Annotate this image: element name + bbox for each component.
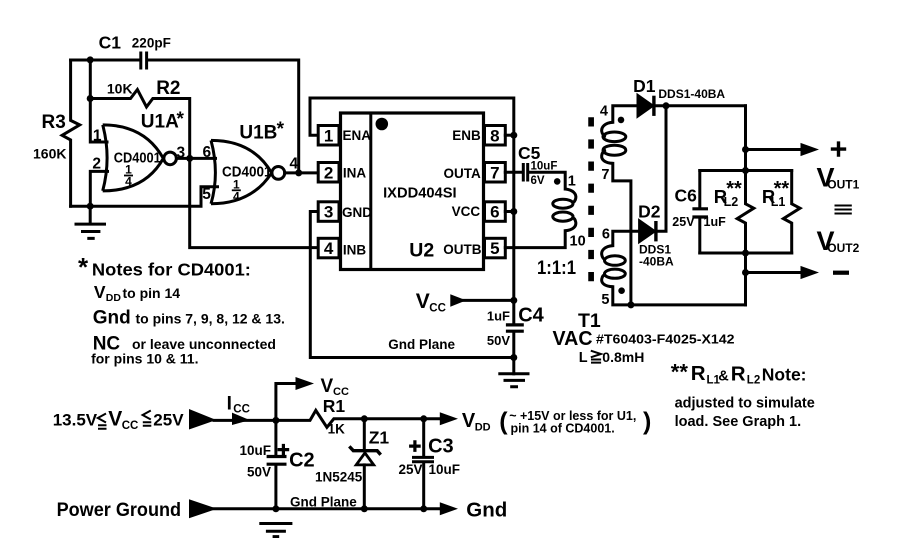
svg-text:adjusted to simulate: adjusted to simulate	[675, 396, 815, 412]
svg-text:U1A: U1A	[141, 112, 179, 133]
svg-text:Gnd Plane: Gnd Plane	[290, 494, 357, 509]
svg-text:1K: 1K	[328, 422, 346, 437]
svg-text:CC: CC	[233, 404, 250, 416]
svg-text:ENB: ENB	[452, 128, 481, 143]
svg-text:ENA: ENA	[343, 128, 372, 143]
svg-text:DDS1-40BA: DDS1-40BA	[658, 87, 725, 101]
svg-text:#T60403-F4025-X142: #T60403-F4025-X142	[596, 332, 735, 347]
svg-text:4: 4	[290, 156, 299, 173]
svg-text:INB: INB	[343, 243, 367, 258]
svg-text:IXDD404SI: IXDD404SI	[383, 185, 457, 201]
svg-text:5: 5	[490, 239, 499, 258]
svg-text:3: 3	[324, 203, 333, 222]
svg-text:8: 8	[490, 126, 499, 145]
svg-text:C3: C3	[428, 436, 454, 458]
svg-text:OUT1: OUT1	[827, 178, 859, 192]
svg-text:Z1: Z1	[369, 428, 390, 448]
svg-text:6: 6	[602, 227, 610, 243]
svg-text:-40BA: -40BA	[639, 255, 674, 269]
svg-text:L2: L2	[747, 375, 760, 387]
svg-text:**: **	[774, 178, 790, 200]
svg-text:10K: 10K	[107, 81, 133, 97]
svg-text:**: **	[726, 178, 742, 200]
svg-text:load. See Graph 1.: load. See Graph 1.	[675, 414, 802, 430]
svg-text:CD4001: CD4001	[114, 151, 161, 167]
svg-text:1: 1	[324, 126, 333, 145]
svg-text:to pins 7, 9, 8, 12 & 13.: to pins 7, 9, 8, 12 & 13.	[136, 311, 285, 327]
svg-text:): )	[643, 407, 651, 435]
svg-text:Note:: Note:	[762, 364, 807, 384]
svg-text:2: 2	[324, 163, 333, 182]
svg-text:*: *	[78, 252, 89, 282]
svg-text:Gnd Plane: Gnd Plane	[388, 337, 455, 352]
svg-text:CC: CC	[429, 303, 446, 315]
svg-text:1uF: 1uF	[704, 215, 727, 229]
svg-text:10uF: 10uF	[531, 161, 558, 173]
svg-text:50V: 50V	[487, 333, 510, 348]
svg-text:1uF: 1uF	[487, 308, 510, 323]
svg-text:I: I	[227, 394, 232, 415]
svg-text:OUTB: OUTB	[443, 242, 481, 257]
svg-text:6V: 6V	[531, 175, 545, 187]
svg-text:D2: D2	[638, 202, 661, 222]
svg-text:C4: C4	[518, 305, 544, 327]
svg-text:**: **	[671, 360, 689, 385]
svg-text:Gnd: Gnd	[466, 499, 507, 522]
svg-text:INA: INA	[343, 165, 367, 180]
svg-text:R: R	[691, 362, 706, 385]
svg-text:0.8mH: 0.8mH	[602, 349, 644, 365]
svg-text:OUT2: OUT2	[827, 241, 859, 255]
svg-text:DD: DD	[106, 292, 122, 304]
svg-text:V: V	[108, 408, 122, 431]
svg-text:R: R	[731, 362, 746, 385]
svg-text:25V: 25V	[672, 215, 695, 229]
svg-text:to pin 14: to pin 14	[123, 285, 181, 301]
svg-text:13.5V: 13.5V	[53, 411, 98, 430]
svg-text:Gnd: Gnd	[93, 308, 131, 329]
svg-text:4: 4	[125, 175, 132, 189]
svg-text:*: *	[177, 109, 185, 130]
svg-text:OUTA: OUTA	[444, 166, 481, 181]
svg-text:10uF: 10uF	[239, 443, 271, 458]
svg-text:R1: R1	[323, 396, 346, 416]
svg-text:1:1:1: 1:1:1	[537, 258, 576, 279]
svg-text:7: 7	[490, 163, 499, 182]
svg-text:220pF: 220pF	[132, 36, 171, 51]
svg-text:pin 14 of CD4001.: pin 14 of CD4001.	[511, 421, 615, 435]
svg-text:R2: R2	[156, 78, 180, 99]
svg-text:4: 4	[600, 104, 608, 120]
svg-text:3: 3	[177, 145, 186, 162]
svg-text:5: 5	[202, 186, 211, 203]
svg-text:1N5245: 1N5245	[315, 470, 363, 485]
svg-text:V: V	[94, 282, 106, 302]
svg-text:4: 4	[324, 239, 334, 258]
svg-text:6: 6	[203, 144, 212, 161]
svg-text:Notes for CD4001:: Notes for CD4001:	[92, 260, 251, 280]
svg-text:1: 1	[568, 174, 576, 190]
svg-text:4: 4	[233, 190, 240, 204]
svg-text:L: L	[579, 350, 588, 366]
svg-text:R3: R3	[42, 112, 66, 133]
svg-text:for pins 10 & 11.: for pins 10 & 11.	[91, 351, 198, 367]
svg-text:C1: C1	[99, 33, 122, 53]
svg-text:V: V	[416, 290, 430, 313]
svg-text:GND: GND	[342, 205, 372, 220]
svg-text:V: V	[321, 376, 334, 397]
svg-text:CD4001: CD4001	[222, 165, 272, 181]
svg-text:*: *	[277, 119, 285, 140]
svg-text:(: (	[499, 407, 508, 435]
svg-text:CC: CC	[122, 420, 139, 432]
svg-text:C6: C6	[675, 186, 698, 206]
svg-text:2: 2	[92, 156, 101, 173]
svg-text:D1: D1	[633, 76, 656, 96]
svg-text:6: 6	[490, 203, 499, 222]
svg-text:VCC: VCC	[452, 204, 481, 219]
svg-text:U2: U2	[409, 240, 434, 262]
svg-text:1: 1	[93, 128, 102, 145]
svg-text:25V: 25V	[398, 462, 422, 477]
svg-text:10: 10	[570, 234, 586, 250]
svg-text:VAC: VAC	[553, 328, 593, 350]
svg-text:U1B: U1B	[239, 122, 277, 143]
svg-text:&: &	[718, 368, 729, 384]
svg-text:DD: DD	[475, 422, 491, 434]
svg-text:25V: 25V	[153, 411, 184, 430]
svg-text:160K: 160K	[33, 146, 66, 162]
svg-text:Power Ground: Power Ground	[57, 500, 182, 521]
svg-text:10uF: 10uF	[429, 462, 461, 477]
svg-text:5: 5	[601, 292, 609, 308]
svg-text:C2: C2	[289, 450, 315, 472]
svg-text:50V: 50V	[247, 465, 271, 480]
svg-text:7: 7	[601, 167, 609, 183]
